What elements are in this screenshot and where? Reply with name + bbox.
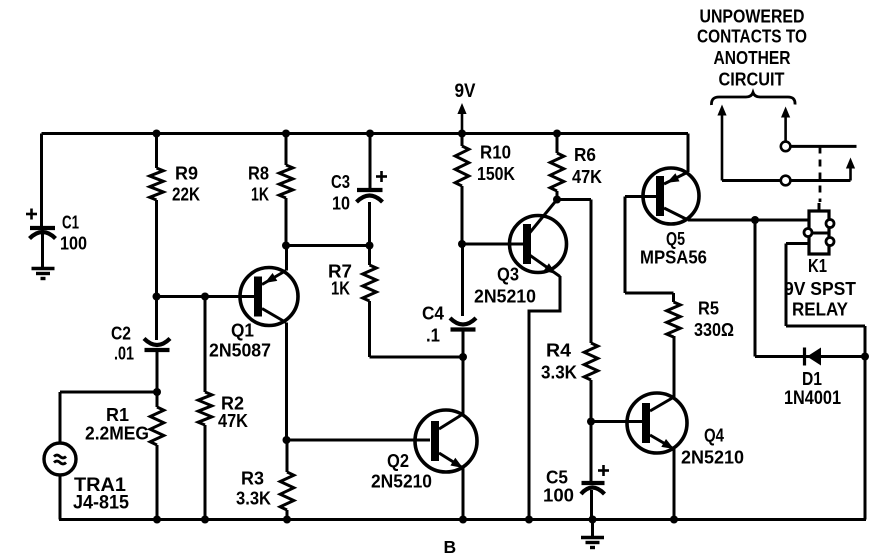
svg-text:3.3K: 3.3K: [541, 363, 577, 383]
svg-text:1K: 1K: [331, 279, 350, 299]
svg-text:B: B: [444, 537, 457, 557]
svg-text:MPSA56: MPSA56: [640, 247, 707, 268]
svg-text:Q1: Q1: [231, 321, 254, 341]
svg-text:R10: R10: [480, 143, 511, 163]
svg-text:100: 100: [543, 486, 574, 506]
svg-text:UNPOWERED: UNPOWERED: [700, 7, 805, 27]
svg-text:3.3K: 3.3K: [236, 489, 271, 509]
svg-text:R5: R5: [698, 299, 719, 319]
svg-text:C4: C4: [422, 304, 444, 324]
svg-text:C5: C5: [546, 468, 568, 488]
svg-text:C2: C2: [111, 324, 131, 344]
svg-text:2N5210: 2N5210: [371, 471, 432, 492]
svg-text:CIRCUIT: CIRCUIT: [719, 70, 785, 90]
svg-text:22K: 22K: [172, 185, 200, 205]
svg-text:R8: R8: [248, 164, 269, 184]
svg-text:47K: 47K: [218, 411, 248, 431]
svg-text:2N5210: 2N5210: [681, 447, 744, 468]
svg-text:ANOTHER: ANOTHER: [714, 48, 791, 68]
svg-text:9V SPST: 9V SPST: [784, 279, 856, 299]
svg-text:330Ω: 330Ω: [694, 320, 734, 340]
svg-text:R1: R1: [106, 405, 129, 425]
svg-text:9V: 9V: [455, 81, 476, 102]
svg-text:.1: .1: [426, 326, 440, 346]
svg-text:2N5087: 2N5087: [209, 340, 271, 361]
svg-text:1K: 1K: [251, 185, 269, 205]
svg-text:100: 100: [60, 234, 87, 254]
svg-text:J4-815: J4-815: [73, 493, 129, 514]
svg-text:.01: .01: [114, 344, 134, 364]
svg-text:C3: C3: [331, 172, 350, 192]
svg-text:R6: R6: [574, 145, 596, 165]
svg-text:D1: D1: [802, 368, 822, 389]
svg-text:Q3: Q3: [497, 265, 519, 285]
svg-text:47K: 47K: [572, 167, 602, 187]
svg-text:RELAY: RELAY: [792, 300, 848, 320]
svg-text:2N5210: 2N5210: [474, 286, 536, 307]
svg-text:R9: R9: [175, 164, 198, 184]
svg-text:K1: K1: [808, 256, 827, 276]
svg-text:1N4001: 1N4001: [784, 388, 841, 409]
svg-text:R4: R4: [546, 341, 571, 361]
svg-text:R3: R3: [241, 469, 264, 489]
svg-text:10: 10: [332, 194, 350, 214]
svg-text:150K: 150K: [477, 164, 515, 184]
svg-text:CONTACTS TO: CONTACTS TO: [697, 27, 807, 47]
svg-text:2.2MEG: 2.2MEG: [85, 424, 149, 444]
svg-text:Q4: Q4: [704, 426, 724, 446]
svg-text:C1: C1: [62, 213, 79, 233]
svg-text:Q2: Q2: [387, 451, 409, 471]
